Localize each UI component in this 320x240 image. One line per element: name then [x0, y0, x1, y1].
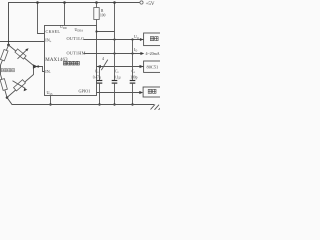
node bridge right vertex dot [33, 64, 38, 68]
resistor bridge bottom-right [14, 80, 26, 91]
svg-text:100: 100 [100, 14, 106, 18]
ground [151, 104, 164, 110]
node junction V2 rail [113, 1, 116, 4]
arrow strain top-right [18, 48, 29, 59]
resistor bridge bottom-left [0, 79, 7, 91]
svg-text:0.1µ: 0.1µ [114, 75, 121, 79]
diagram box instrument [143, 87, 161, 97]
wire C1 top lead [99, 67, 101, 81]
node junction R rail [95, 1, 98, 4]
svg-text:OUT1LG: OUT1LG [67, 36, 85, 41]
node junction V2 ground rail [113, 103, 115, 105]
svg-text:0.47µ: 0.47µ [93, 75, 101, 79]
wire bridge edge top-right [9, 45, 34, 66]
wire UDDA stub to V2 [97, 31, 115, 33]
wire arrowhead into display box [140, 38, 144, 41]
resistor bridge top-right [15, 49, 26, 59]
node junction CKSEL rail [36, 1, 39, 4]
node junction VDD rail [63, 1, 66, 4]
wire OUT1LG Uo to display box [84, 39, 144, 41]
resistor bridge top-left [0, 50, 8, 61]
capacitor C3 [130, 80, 136, 82]
wire CKSEL drop [38, 3, 45, 34]
wire IN- from bridge right vertex [34, 67, 45, 72]
wire C1 lower lead [99, 83, 101, 104]
capacitor C2 [112, 80, 118, 82]
svg-text:4: 4 [102, 56, 104, 61]
wire V2 +5V vertical upper [114, 3, 116, 81]
diagram box 80C51 [144, 61, 162, 72]
node junction V2 wire1 [113, 38, 115, 40]
wire top +5V rail [9, 3, 140, 46]
label display glyphs [150, 37, 158, 41]
diagram box digital display [144, 33, 162, 46]
node UDDA pin dot [95, 30, 97, 32]
wire bridge edge bottom-right [7, 66, 34, 98]
wire V3 lower [132, 83, 134, 104]
node junction V2 wire2 [113, 52, 115, 54]
node junction V3 ground rail [131, 103, 133, 105]
wire GPIO to instrument box [97, 92, 141, 94]
wire VDD drop [64, 3, 66, 26]
wire V3 vertical upper [132, 40, 134, 81]
node junction VSS ground rail [49, 103, 51, 105]
resistor R 100 [94, 8, 99, 20]
capacitor C1 [97, 80, 103, 82]
svg-text:CKSEL: CKSEL [46, 29, 61, 34]
node +5V terminal [140, 1, 143, 4]
wire arrowhead into instrument box [139, 91, 143, 94]
wire R top lead [96, 3, 98, 8]
wire bus slash [101, 60, 108, 71]
node bridge top vertex [7, 44, 10, 47]
svg-text:+5V: +5V [146, 2, 155, 7]
wire ground rail [7, 98, 154, 105]
node junction V3 wire1 [131, 38, 133, 40]
wire R bottom lead [96, 20, 98, 26]
wire IN+ horizontal [0, 41, 45, 43]
label instrument glyphs [148, 89, 156, 93]
svg-text:80C51: 80C51 [147, 65, 159, 70]
svg-text:180p: 180p [130, 75, 137, 79]
wire arrowhead 4-20mA [140, 52, 144, 55]
wire bridge edge bottom-left [1, 65, 8, 98]
node junction C1 ground rail [98, 103, 100, 105]
node bridge bottom vertex [6, 96, 9, 99]
node junction V3 wire2 [131, 52, 133, 54]
wire VSS pin drop [50, 96, 52, 105]
node junction rail-drop [8, 41, 10, 43]
svg-text:4~20mA: 4~20mA [146, 51, 160, 56]
wire arrowhead into 80C51 [140, 65, 144, 68]
svg-text:GPIO1: GPIO1 [79, 89, 91, 94]
arrow strain bottom-right [13, 81, 28, 91]
wire OUT1HM Io 4-20mA [84, 53, 141, 55]
svg-text:OUT1HM: OUT1HM [67, 51, 86, 56]
wire serial interface bus [97, 66, 144, 68]
wire bridge edge top-left [1, 45, 9, 65]
wire V2 lower [114, 83, 116, 104]
wire arrowhead into MAX1463 [97, 65, 101, 68]
op-amp U1 MAX1463 IC box [45, 26, 97, 96]
label serial interface 串行接口 glyph blobs [64, 61, 80, 65]
label pressure sensor glyphs 压力传感器 [0, 69, 14, 72]
svg-text:MAX1463: MAX1463 [45, 58, 68, 63]
